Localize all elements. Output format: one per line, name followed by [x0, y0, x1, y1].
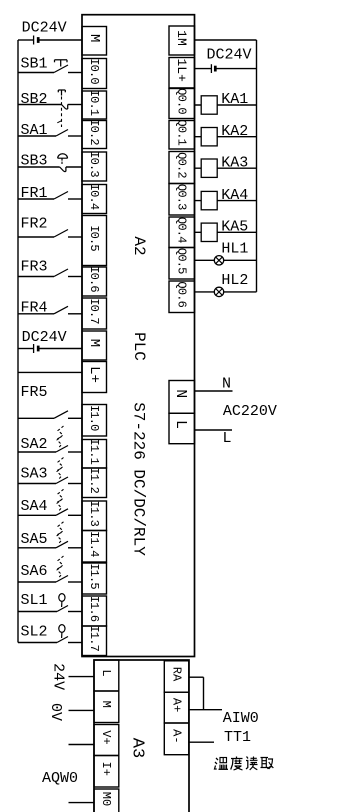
- svg-text:I0.0: I0.0: [87, 58, 101, 84]
- svg-text:I1.5: I1.5: [87, 563, 101, 589]
- svg-text:I1.6: I1.6: [87, 596, 101, 622]
- svg-text:I+: I+: [99, 762, 113, 776]
- svg-text:DC24V: DC24V: [22, 20, 67, 37]
- svg-text:I1.1: I1.1: [87, 438, 101, 464]
- svg-text:M: M: [86, 34, 102, 42]
- svg-text:L: L: [223, 430, 232, 447]
- svg-text:Q0.4: Q0.4: [174, 217, 188, 243]
- svg-text:SA3: SA3: [21, 466, 48, 483]
- svg-text:I0.7: I0.7: [87, 298, 101, 324]
- svg-text:I1.2: I1.2: [87, 467, 101, 493]
- svg-text:KA5: KA5: [221, 219, 248, 236]
- svg-text:1M: 1M: [174, 30, 189, 46]
- svg-text:V+: V+: [99, 730, 113, 744]
- svg-text:A-: A-: [170, 729, 184, 743]
- svg-text:RA: RA: [170, 667, 184, 682]
- svg-text:DC24V: DC24V: [22, 329, 67, 346]
- svg-text:Q0.0: Q0.0: [174, 88, 188, 114]
- svg-text:AQW0: AQW0: [42, 770, 78, 787]
- svg-text:KA2: KA2: [221, 123, 248, 140]
- svg-text:M: M: [99, 701, 113, 708]
- svg-text:S7-226 DC/DC/RLY: S7-226 DC/DC/RLY: [130, 402, 148, 556]
- svg-text:SB2: SB2: [21, 91, 48, 108]
- svg-text:L+: L+: [86, 366, 102, 383]
- svg-text:Q0.3: Q0.3: [174, 184, 188, 210]
- svg-text:HL1: HL1: [221, 240, 248, 257]
- svg-text:I0.5: I0.5: [87, 225, 101, 251]
- svg-text:N: N: [222, 376, 231, 393]
- svg-text:I0.1: I0.1: [87, 90, 101, 116]
- svg-text:FR2: FR2: [21, 216, 48, 233]
- svg-text:Q0.2: Q0.2: [174, 152, 188, 178]
- svg-text:A2: A2: [130, 236, 148, 255]
- svg-text:KA4: KA4: [221, 187, 248, 204]
- svg-text:AC220V: AC220V: [223, 403, 277, 420]
- svg-text:1L+: 1L+: [174, 58, 189, 82]
- svg-text:I0.2: I0.2: [87, 119, 101, 145]
- svg-text:Q0.1: Q0.1: [174, 119, 188, 145]
- svg-text:M0: M0: [99, 792, 113, 806]
- svg-text:SL2: SL2: [21, 624, 48, 641]
- svg-text:I1.7: I1.7: [87, 625, 101, 651]
- svg-text:SA4: SA4: [21, 498, 48, 515]
- svg-text:FR3: FR3: [21, 259, 48, 276]
- svg-text:KA3: KA3: [221, 154, 248, 171]
- svg-text:SL1: SL1: [21, 592, 48, 609]
- svg-text:N: N: [172, 389, 189, 398]
- svg-text:A+: A+: [170, 698, 184, 712]
- svg-text:SA2: SA2: [21, 436, 48, 453]
- svg-text:A3: A3: [127, 738, 146, 758]
- svg-text:Q0.6: Q0.6: [174, 281, 188, 307]
- svg-text:HL2: HL2: [221, 272, 248, 289]
- svg-text:AIW0: AIW0: [223, 710, 259, 727]
- svg-text:0V: 0V: [47, 703, 64, 721]
- svg-text:FR5: FR5: [21, 384, 48, 401]
- svg-text:I1.4: I1.4: [87, 531, 101, 557]
- svg-text:PLC: PLC: [130, 332, 148, 361]
- svg-text:KA1: KA1: [221, 91, 248, 108]
- svg-text:L: L: [99, 669, 113, 676]
- svg-text:DC24V: DC24V: [207, 47, 252, 64]
- svg-text:Q0.5: Q0.5: [174, 248, 188, 274]
- svg-text:I1.3: I1.3: [87, 500, 101, 526]
- svg-text:I0.6: I0.6: [87, 266, 101, 292]
- svg-text:SB1: SB1: [21, 56, 48, 73]
- svg-text:I0.4: I0.4: [87, 184, 101, 210]
- svg-text:24V: 24V: [50, 663, 67, 690]
- svg-text:SA5: SA5: [21, 531, 48, 548]
- svg-text:SA6: SA6: [21, 563, 48, 580]
- svg-text:I0.3: I0.3: [87, 151, 101, 177]
- svg-text:L: L: [172, 420, 189, 429]
- svg-text:M: M: [86, 339, 102, 347]
- svg-text:TT1: TT1: [224, 729, 251, 746]
- svg-text:I1.0: I1.0: [87, 405, 101, 431]
